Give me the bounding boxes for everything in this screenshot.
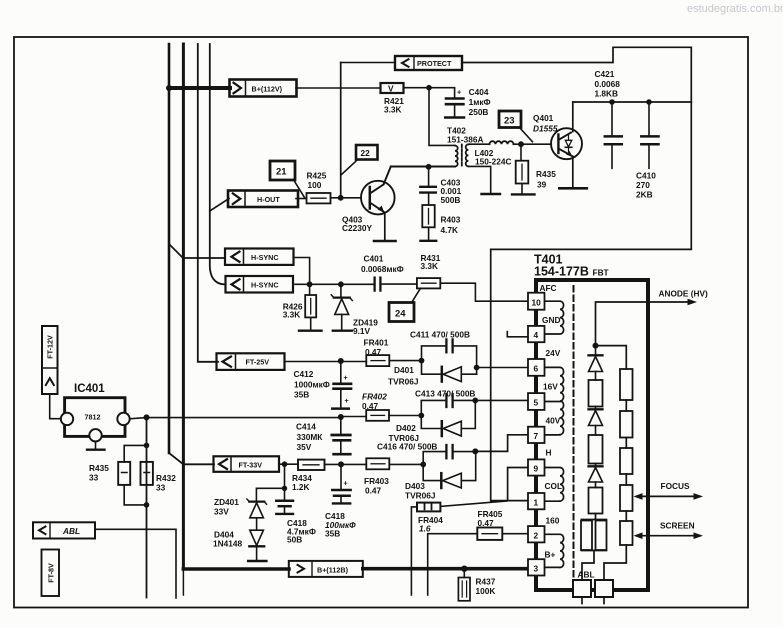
wire divider gap 3 [625,474,627,485]
wire collector rail y102 [573,101,692,103]
svg-text:C404: C404 [469,87,489,97]
wire FR403 to rectifier node [389,463,423,465]
wire FT-33V feed from bus 1 [169,453,214,464]
svg-text:C412: C412 [294,369,314,379]
svg-text:7812: 7812 [85,413,101,422]
diode D404 [249,530,264,559]
node R435/R432 top [144,443,150,449]
svg-text:3.3K: 3.3K [384,105,402,115]
zener ZD401 [247,464,285,530]
diode D402 [421,400,475,436]
wire T402 secondary bottom to ground [468,166,490,192]
connector box FT-8V [42,550,60,597]
wire H-OUT slant from bus 4 [210,199,229,212]
resistor HV3 [589,488,603,514]
ground T402 secondary [482,193,501,195]
wire H-SYNC1 diagonal from bus 1 [169,244,225,258]
wire L402 to Q401 base [514,143,552,145]
svg-text:D1555: D1555 [533,124,558,134]
diode HV3 [589,464,603,488]
svg-text:4: 4 [534,330,539,340]
svg-text:250B: 250B [469,107,489,117]
inductor L402 [490,141,514,144]
svg-text:40V: 40V [546,416,561,426]
bus wire 1 [168,44,171,453]
arrow FOCUS [634,493,704,500]
svg-text:151-386A: 151-386A [447,135,483,145]
svg-text:270: 270 [636,180,650,190]
svg-text:Q401: Q401 [533,113,554,123]
wire base node to Q403 [341,197,362,199]
capacitor C421 [605,102,622,168]
svg-text:35V: 35V [297,442,312,452]
wire PROTECT left to drop [341,62,395,64]
svg-text:39: 39 [537,180,547,190]
svg-text:B+(112V): B+(112V) [252,84,283,93]
wire FBT pin 9 drop [508,468,528,501]
svg-text:+: + [457,88,461,97]
svg-text:FT-12V: FT-12V [46,335,55,359]
svg-text:+: + [344,479,348,488]
svg-text:SCREEN: SCREEN [660,521,695,531]
wire to FBT pin 5 [475,399,528,401]
wire IC401 output to 12V rail [130,418,341,419]
pin 10 [528,293,545,310]
ABL terminal square 2 [595,580,613,597]
svg-text:+: + [345,396,349,405]
svg-text:TVR06J: TVR06J [388,377,419,387]
wire R431 to FBT pin 10 [440,283,528,301]
svg-text:H-SYNC: H-SYNC [251,253,279,262]
ground R426 [299,330,322,332]
wire PROTECT right to COL net corner [462,47,691,500]
svg-text:9.1V: 9.1V [353,326,371,336]
svg-text:100K: 100K [476,586,496,596]
svg-text:PROTECT: PROTECT [417,59,452,68]
capacitor C401 [375,278,417,291]
svg-text:R435: R435 [536,169,556,179]
node C418a junction [282,461,288,467]
wire R434 to FR403 [325,463,367,465]
divider resistor SCREEN [620,521,633,545]
svg-text:100: 100 [308,180,322,190]
resistor R437 [458,569,470,601]
resistor R434 [298,460,325,470]
fuse resistor FR403 [366,458,389,469]
svg-text:FT-33V: FT-33V [239,460,263,469]
capacitor C410 [641,102,658,168]
wire B+(112V) feed from bus 1 [169,86,230,90]
wire FR401 to rectifier node [389,360,421,362]
svg-text:0.47: 0.47 [365,486,382,496]
zener ZD419 [331,284,352,329]
svg-text:33V: 33V [214,507,229,517]
svg-text:24V: 24V [546,348,561,358]
svg-text:0.47: 0.47 [365,347,382,357]
svg-text:FR402: FR402 [362,392,387,402]
wire divider gap 2 [625,438,627,449]
diode HV2 [589,407,603,436]
svg-text:FR403: FR403 [364,476,389,486]
wire tag 22 diagonal [342,160,358,175]
wire PROTECT drop to Q403 base node [340,63,342,198]
svg-text:35B: 35B [294,390,309,400]
T401 winding H-COL [545,468,564,502]
svg-text:1.8KB: 1.8KB [595,89,619,99]
svg-text:22: 22 [361,148,371,158]
svg-text:R403: R403 [441,214,461,224]
ground IC401 [87,449,105,451]
svg-text:H: H [546,448,552,458]
resistor R435 (33) [118,445,146,505]
svg-text:33: 33 [156,483,166,493]
resistor HV2 [589,435,603,464]
svg-text:50B: 50B [287,535,302,545]
wire tag 21 diagonal [294,181,305,198]
resistor R435 (39) [516,144,529,193]
svg-text:1.2K: 1.2K [292,482,310,492]
svg-text:GND: GND [542,315,560,325]
ground R435 [512,193,535,195]
capacitor C412 [332,362,351,409]
pin 9 [528,459,545,475]
pin 6 [528,359,545,376]
tag box 23 [499,111,521,128]
wire node to T402 primary top [429,88,455,146]
T401 core [573,286,575,590]
svg-text:estudegratis.com.br: estudegratis.com.br [687,3,783,15]
node rectifier 3 left [420,462,426,468]
svg-text:35B: 35B [325,529,340,539]
ground Q403 emitter [374,240,396,243]
connector box H-OUT [228,191,298,208]
wire 12V vertical [146,417,148,597]
svg-text:C410: C410 [636,171,656,181]
node B+(112V) junction on bus 1 [166,85,172,91]
node Q401 base / R435 [518,141,524,147]
svg-text:2: 2 [534,530,539,540]
svg-text:3.3K: 3.3K [421,261,439,271]
diode D401 [422,361,477,382]
resistor pair ABL left [581,514,607,581]
wire Q403 collector line [391,166,455,168]
T401 winding AFC-GND [545,301,564,334]
connector box V [381,83,404,93]
ground Q401 emitter [559,187,587,190]
svg-text:6: 6 [534,364,539,374]
connector box FT-25V [217,353,285,370]
svg-text:B+: B+ [545,550,556,560]
connector box B+(112B) [289,561,363,577]
svg-text:5: 5 [534,398,539,408]
svg-text:AFC: AFC [540,283,557,293]
node ZD419 junction [338,281,344,287]
svg-text:23: 23 [504,116,515,127]
pin 7 [528,427,545,443]
wire tag 24 diagonal [412,289,421,303]
svg-text:ZD401: ZD401 [214,497,239,507]
fuse resistor FR404 [411,501,507,595]
capacitor C414 [332,417,351,454]
connector box B+(112V) [230,80,297,97]
divider resistor 2 [620,411,633,438]
pin 3 [528,559,545,575]
wire HV rail to anode [596,302,691,346]
svg-text:154-177B: 154-177B [534,265,589,279]
svg-text:C414: C414 [296,422,316,432]
node C412 junction [338,358,344,364]
capacitor C403 [420,167,436,205]
wire HV node to divider column [596,346,627,369]
pin 1 [528,493,545,509]
svg-text:3.3K: 3.3K [283,309,301,319]
node C403 junction [426,164,432,170]
wire H-SYNC2 to C401 [295,283,374,285]
svg-text:33: 33 [89,473,99,483]
bus wire 2 [182,44,185,569]
diode D403 [423,452,476,488]
node Q403 base [338,195,344,201]
wire H-OUT to R425 [296,198,307,200]
svg-text:IC401: IC401 [74,383,105,395]
svg-text:FT-25V: FT-25V [246,358,270,367]
transformer T402 primary winding [455,146,458,167]
connector box FT-12V [42,326,58,394]
wire ABL to drop [95,529,176,598]
capacitor C411 loop [422,339,477,374]
svg-text:ABL: ABL [578,570,595,580]
node rectifier 1 right [474,365,480,371]
wire tag 23 diagonal [520,128,533,142]
svg-text:0.47: 0.47 [478,518,495,528]
connector box FT-33V [214,456,280,472]
svg-text:R435: R435 [89,463,109,473]
resistor R403 [422,205,434,240]
pin 4 [528,326,545,342]
svg-text:21: 21 [276,167,287,178]
capacitor C413 loop [421,394,475,416]
node rectifier 3 right [472,448,478,454]
svg-text:10: 10 [532,298,542,308]
node rectifier 1 left [419,358,425,364]
divider resistor 1 [620,369,633,400]
node rectifier 2 right [472,398,478,404]
node R426 junction [307,281,313,287]
arrow ANODE (HV) [688,299,698,306]
connector box H-SYNC (lower) [226,276,294,293]
svg-text:0.0068мкФ: 0.0068мкФ [361,264,404,274]
wire to FBT pin 7 [475,435,528,452]
capacitor C418 100mk [332,464,350,503]
pin 2 [528,526,545,542]
wire FT-25V to FR401 [285,361,366,363]
svg-text:2KB: 2KB [636,190,653,200]
node HV top [593,343,599,349]
capacitor C416 loop [423,445,475,464]
T401 winding 24V-16V-40V [545,367,564,435]
capacitor C418 4.7mk [276,488,293,514]
svg-text:330МК: 330МК [297,432,324,442]
fuse resistor FR405 [428,528,528,596]
diode HV1 [589,346,603,380]
svg-text:C401: C401 [364,254,384,264]
svg-text:24: 24 [395,309,406,320]
transformer T402 secondary winding [466,144,469,166]
tag box 21 [270,161,295,180]
svg-text:ABL: ABL [62,526,80,536]
resistor R431 [417,278,440,288]
svg-text:16V: 16V [543,382,558,392]
regulator IC401 [61,398,130,449]
svg-text:R425: R425 [307,171,327,181]
svg-text:1мкФ: 1мкФ [469,97,491,107]
fuse resistor FR401 [366,355,389,366]
svg-text:C411 470/ 500B: C411 470/ 500B [410,330,470,340]
svg-text:FOCUS: FOCUS [661,481,691,491]
resistor R432 (33) [141,462,153,485]
svg-text:H-SYNC: H-SYNC [251,281,279,290]
svg-text:D402: D402 [396,423,416,433]
svg-text:500B: 500B [441,195,461,205]
transistor Q403 [361,167,395,240]
fuse resistor FR402 [341,410,422,421]
wire bus2 stub below B+ bend [182,571,184,595]
node IC401 output [144,414,150,420]
svg-text:V: V [388,84,394,94]
node rectifier 2 left [418,413,424,419]
wire FT-12V to IC401 [50,394,61,419]
node R437 junction [461,566,467,572]
wire V box to C404 [404,87,455,89]
wire B+(112B) right [363,567,529,571]
wire divider gap 4 [625,511,627,521]
connector box ABL [33,522,95,538]
svg-text:C413 470/ 500B: C413 470/ 500B [415,389,475,399]
svg-text:FT-8V: FT-8V [46,563,55,583]
bus wire 4 [210,44,225,284]
transistor Q401 [551,102,582,186]
connector box PROTECT [395,56,462,70]
svg-text:FBT: FBT [593,268,609,278]
resistor HV1 [589,380,603,407]
svg-text:ANODE (HV): ANODE (HV) [659,289,709,299]
wire divider gap 1 [625,400,627,411]
divider resistor FOCUS [620,485,633,511]
wire T402 secondary top to L402 [468,143,489,145]
ground R403 [421,240,437,242]
svg-text:9: 9 [534,464,539,474]
svg-text:0.47: 0.47 [362,401,379,411]
svg-text:160: 160 [546,516,560,526]
svg-text:7: 7 [534,431,539,441]
svg-text:150-224C: 150-224C [475,157,511,167]
svg-text:C421: C421 [595,69,615,79]
svg-text:R437: R437 [476,577,496,587]
svg-text:COL: COL [545,481,563,491]
arrow SCREEN [634,532,704,539]
tag box 22 [356,145,378,160]
node R435/R432 bottom [144,502,150,508]
svg-text:0.0068: 0.0068 [595,79,621,89]
svg-text:1.6: 1.6 [419,524,431,534]
wire divider bottom to ABL [604,545,626,580]
svg-text:TVR06J: TVR06J [405,491,436,501]
svg-text:D403: D403 [405,481,425,491]
wire ABL square leads [582,597,604,604]
tag box 24 [389,303,414,322]
flyback transformer T401 outline [536,280,648,590]
bus wire 3 [198,44,218,362]
divider resistor 3 [620,448,633,474]
svg-text:H-OUT: H-OUT [257,195,280,204]
svg-text:B+(112B): B+(112B) [317,565,349,574]
node C421 junction [609,99,615,105]
svg-text:1: 1 [534,497,539,507]
node C418b junction [338,461,344,467]
node C414 junction [338,414,344,420]
connector box H-SYNC (upper) [225,249,294,265]
svg-text:1N4148: 1N4148 [213,539,242,549]
ground ZD419 [333,330,352,332]
wire H-SYNC1 right drop [295,258,310,285]
wire B+(112B) left [183,567,289,571]
svg-text:C416 470/ 500B: C416 470/ 500B [377,442,437,452]
wire R425 to base node [331,197,341,199]
node C410 junction [646,99,652,105]
ground D404 [248,560,266,562]
T401 winding 160-B+ [545,534,564,567]
svg-text:3: 3 [534,564,539,574]
svg-text:1000мкФ: 1000мкФ [294,380,330,390]
resistor R426 [305,284,316,329]
wire FT-33V to R434 [279,463,298,465]
node V box / C404 junction [426,85,432,91]
svg-text:C2230Y: C2230Y [342,223,372,233]
wire pin 4 GND hook [507,332,528,337]
transformer T402 core [461,145,463,168]
svg-text:+: + [344,373,348,382]
svg-text:R432: R432 [156,473,176,483]
svg-text:D401: D401 [394,365,414,375]
wire to FBT pin 6 [477,367,528,369]
resistor R425 [307,193,331,203]
ABL terminal square 1 [573,580,591,597]
wire B+(112V) box to V box [296,87,381,89]
pin 5 [528,393,545,410]
svg-text:4.7K: 4.7K [441,225,459,235]
node ZD401 branch [282,486,287,491]
capacitor C404 [445,88,464,118]
svg-text:FR401: FR401 [364,338,389,348]
